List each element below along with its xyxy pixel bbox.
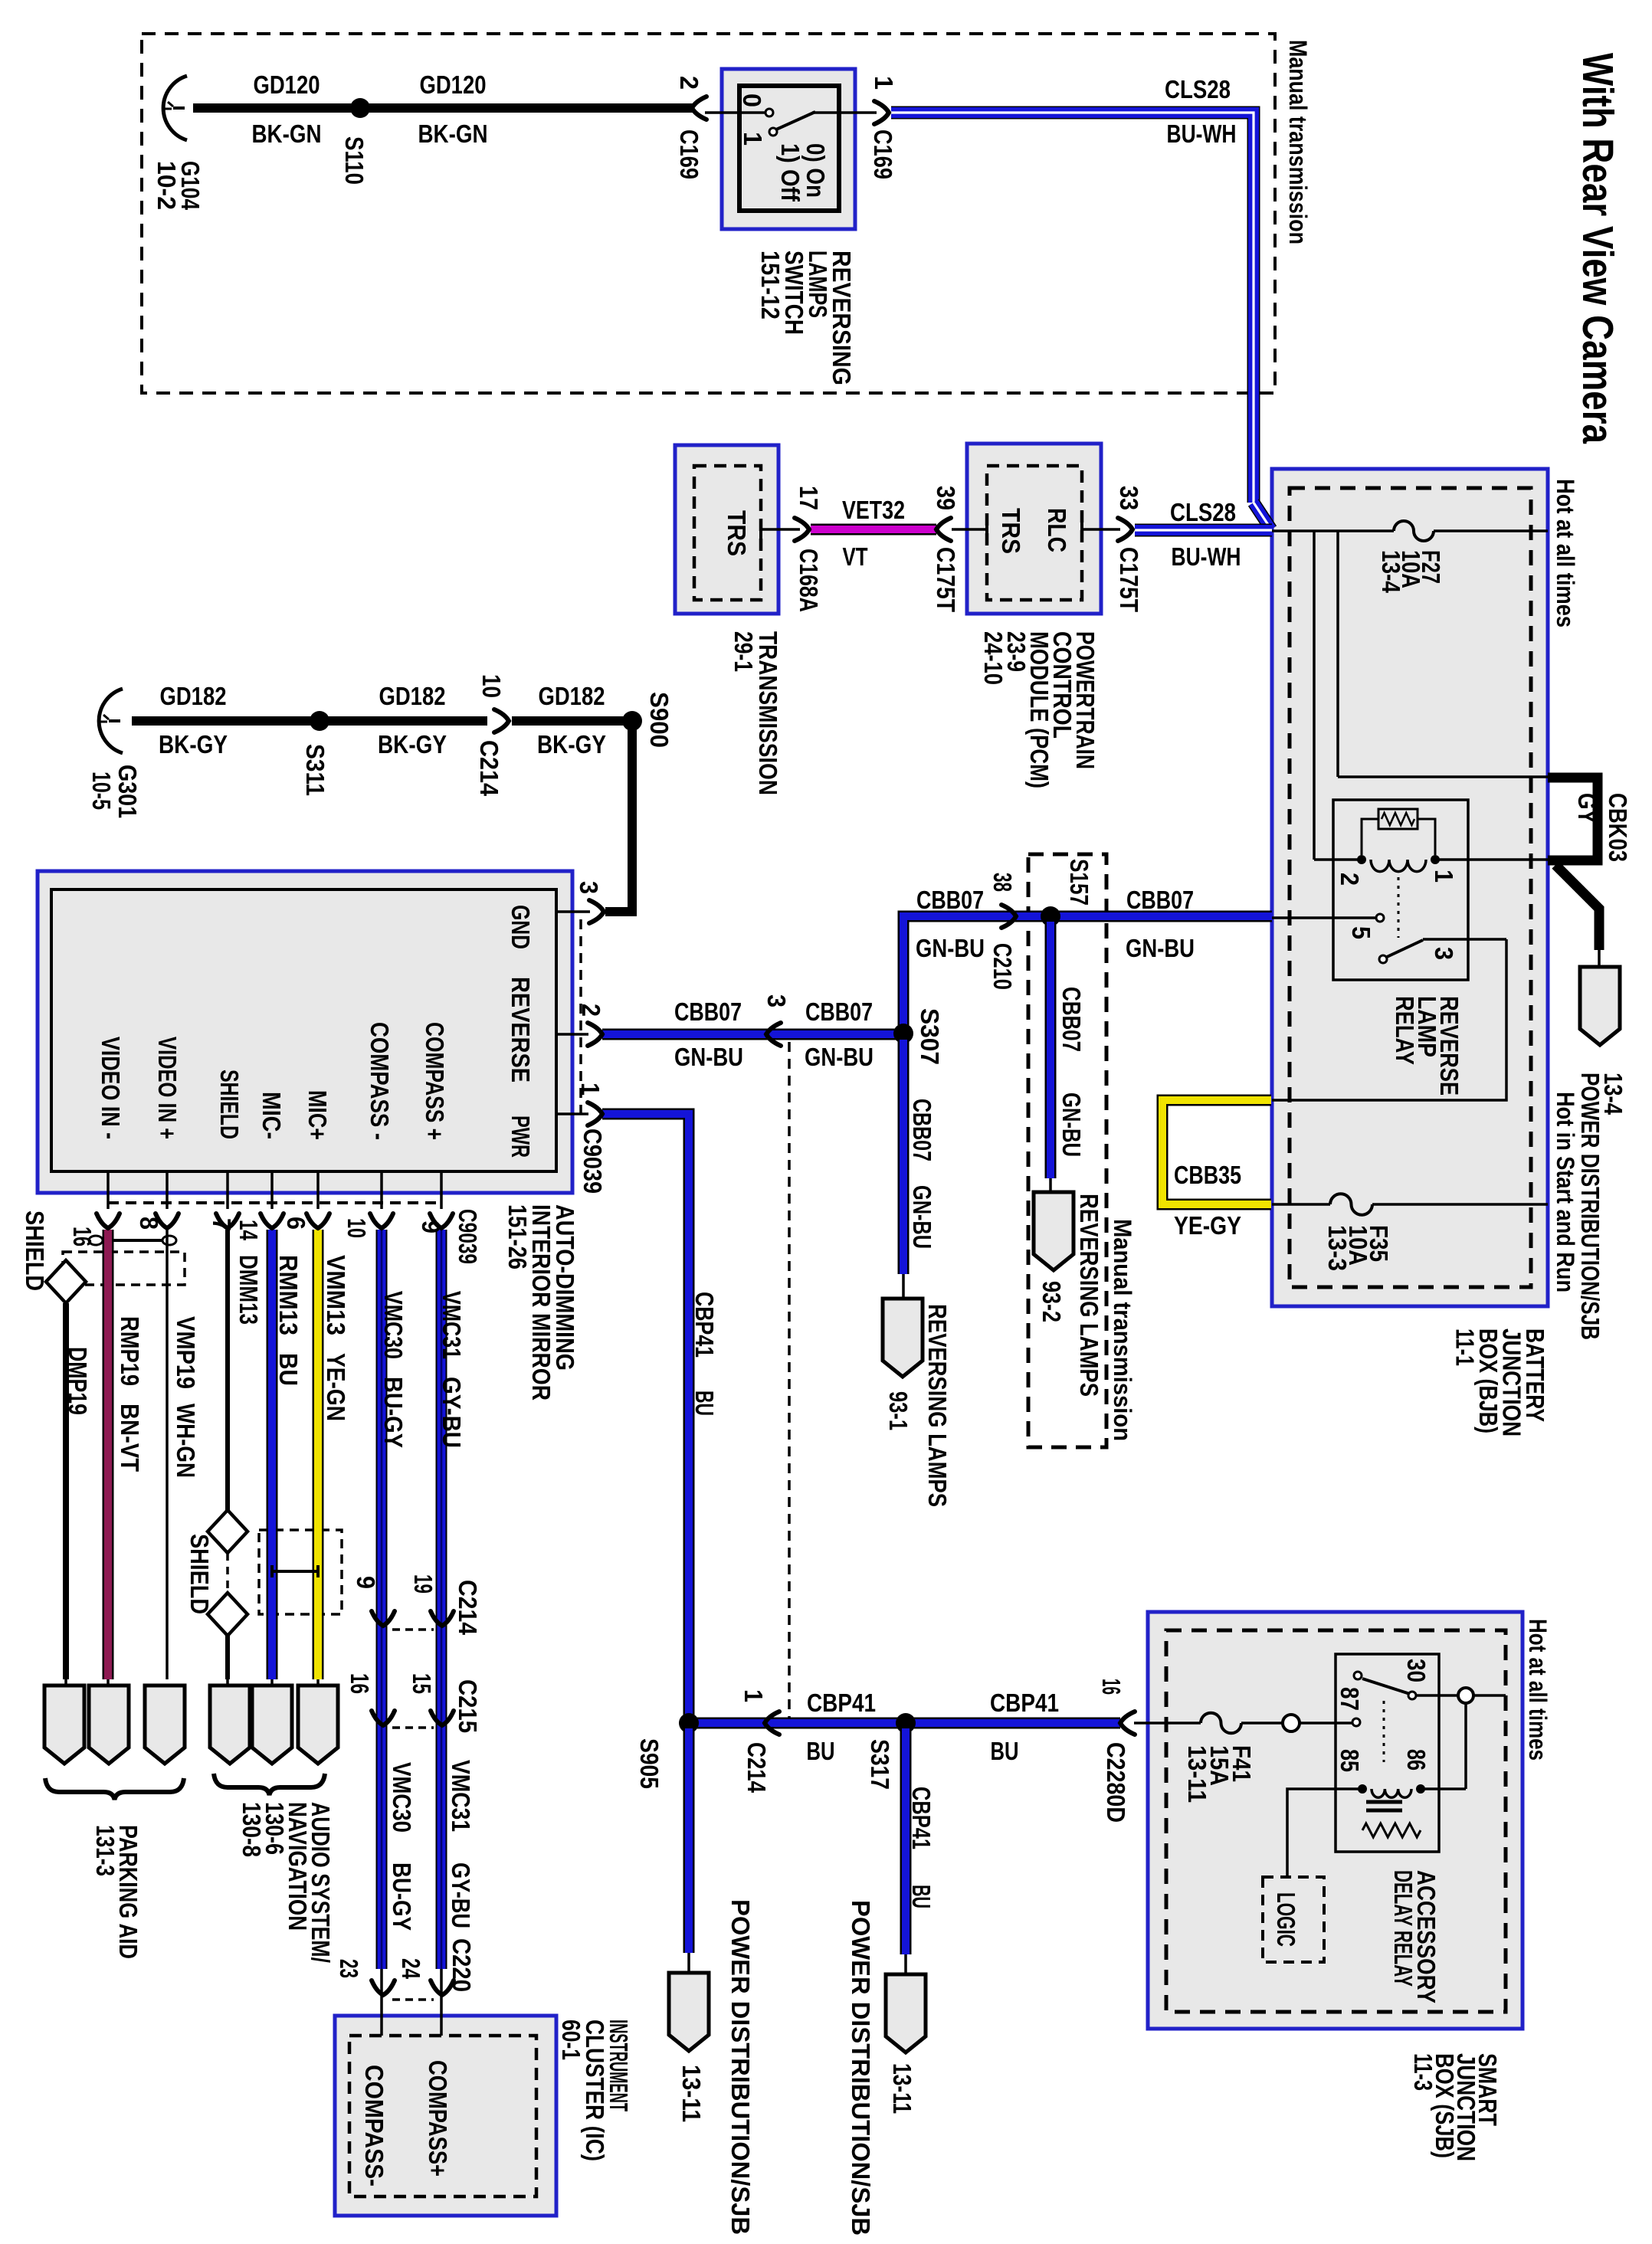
- svg-text:Hot at all times: Hot at all times: [1552, 479, 1579, 627]
- svg-text:C214: C214: [742, 1742, 771, 1794]
- svg-text:GY-BU: GY-BU: [438, 1377, 466, 1448]
- svg-text:S900: S900: [645, 692, 674, 748]
- svg-text:CBB07: CBB07: [1057, 987, 1086, 1052]
- svg-text:BK-GN: BK-GN: [418, 120, 488, 148]
- svg-text:11-3: 11-3: [1409, 2053, 1437, 2091]
- svg-text:CBP41: CBP41: [690, 1292, 719, 1358]
- svg-text:DMM13: DMM13: [234, 1255, 263, 1325]
- svg-text:6: 6: [282, 1217, 310, 1230]
- svg-text:MIC+: MIC+: [303, 1090, 332, 1140]
- svg-text:With Rear View Camera: With Rear View Camera: [1573, 53, 1622, 444]
- svg-text:13-3: 13-3: [1323, 1225, 1352, 1271]
- svg-text:C168A: C168A: [795, 549, 823, 612]
- svg-text:33: 33: [1115, 486, 1143, 510]
- svg-text:GND: GND: [506, 905, 535, 949]
- svg-text:13-11: 13-11: [1183, 1745, 1211, 1803]
- svg-text:BU-WH: BU-WH: [1167, 120, 1237, 148]
- svg-text:60-1: 60-1: [557, 2020, 585, 2060]
- svg-text:RLC: RLC: [1043, 508, 1071, 552]
- svg-text:10-2: 10-2: [152, 161, 181, 210]
- svg-text:GN-BU: GN-BU: [916, 934, 985, 962]
- svg-text:C175T: C175T: [932, 547, 960, 612]
- svg-text:39: 39: [932, 486, 960, 510]
- svg-text:GN-BU: GN-BU: [1126, 934, 1195, 962]
- svg-text:1: 1: [739, 1689, 768, 1702]
- svg-text:GD120: GD120: [254, 70, 320, 99]
- svg-text:130-8: 130-8: [238, 1802, 266, 1857]
- svg-text:Manual transmission: Manual transmission: [1284, 40, 1312, 244]
- svg-text:COMPASS+: COMPASS+: [424, 2060, 452, 2177]
- svg-text:0: 0: [738, 93, 766, 107]
- svg-text:POWER DISTRIBUTION/SJB: POWER DISTRIBUTION/SJB: [847, 1900, 875, 2236]
- svg-text:SHIELD: SHIELD: [185, 1534, 214, 1614]
- svg-text:131-3: 131-3: [91, 1825, 120, 1876]
- svg-text:CBB07: CBB07: [916, 886, 984, 914]
- svg-text:C214: C214: [454, 1580, 482, 1636]
- svg-text:POWER DISTRIBUTION/SJB: POWER DISTRIBUTION/SJB: [1576, 1073, 1604, 1340]
- svg-text:BK-GY: BK-GY: [159, 730, 228, 758]
- svg-text:TRS: TRS: [723, 510, 751, 556]
- svg-text:8: 8: [135, 1217, 163, 1230]
- svg-text:1: 1: [739, 132, 767, 146]
- svg-text:9: 9: [417, 1220, 445, 1233]
- svg-text:151-12: 151-12: [756, 251, 785, 319]
- svg-text:10: 10: [343, 1218, 371, 1238]
- svg-text:COMPASS -: COMPASS -: [365, 1022, 394, 1140]
- svg-text:29-1: 29-1: [729, 631, 758, 672]
- svg-text:BU-GY: BU-GY: [379, 1377, 408, 1448]
- svg-text:G301: G301: [113, 765, 142, 818]
- svg-text:S905: S905: [635, 1738, 664, 1789]
- svg-text:BU: BU: [807, 1737, 835, 1765]
- svg-text:10: 10: [477, 674, 506, 698]
- svg-text:REVERSE: REVERSE: [506, 977, 535, 1083]
- svg-text:CBB07: CBB07: [674, 998, 742, 1026]
- svg-text:VMC30: VMC30: [388, 1762, 416, 1833]
- svg-text:13-11: 13-11: [888, 2063, 916, 2114]
- svg-text:CBB07: CBB07: [805, 998, 873, 1026]
- svg-text:BK-GN: BK-GN: [252, 120, 322, 148]
- svg-text:13-11: 13-11: [677, 2065, 706, 2122]
- svg-text:REVERSING LAMPS: REVERSING LAMPS: [1075, 1194, 1103, 1397]
- svg-text:24: 24: [397, 1958, 425, 1979]
- svg-text:BU-WH: BU-WH: [1172, 542, 1241, 571]
- svg-text:87: 87: [1336, 1687, 1364, 1711]
- svg-text:DMP19: DMP19: [64, 1347, 92, 1415]
- svg-text:10-5: 10-5: [87, 771, 116, 810]
- svg-text:7: 7: [208, 1218, 236, 1231]
- svg-text:2: 2: [675, 76, 703, 90]
- svg-text:1: 1: [576, 1083, 605, 1096]
- svg-text:30: 30: [1402, 1659, 1431, 1682]
- svg-text:TRS: TRS: [997, 508, 1025, 554]
- svg-text:14: 14: [234, 1220, 263, 1240]
- svg-text:38: 38: [988, 873, 1017, 892]
- svg-text:24-10: 24-10: [979, 631, 1008, 685]
- svg-text:DELAY RELAY: DELAY RELAY: [1389, 1870, 1418, 1987]
- svg-text:SHIELD: SHIELD: [215, 1070, 244, 1139]
- svg-text:VET32: VET32: [842, 496, 905, 524]
- svg-text:GD182: GD182: [160, 682, 227, 710]
- svg-text:13-4: 13-4: [1377, 550, 1405, 594]
- svg-text:GN-BU: GN-BU: [805, 1043, 874, 1071]
- svg-text:Manual transmission: Manual transmission: [1109, 1219, 1136, 1441]
- svg-text:VMC31: VMC31: [447, 1760, 475, 1832]
- svg-text:16: 16: [346, 1673, 374, 1694]
- svg-text:2: 2: [577, 1004, 605, 1017]
- svg-text:S311: S311: [301, 744, 329, 796]
- svg-text:19: 19: [409, 1574, 438, 1594]
- svg-text:C2280D: C2280D: [1102, 1742, 1130, 1823]
- svg-text:SHIELD: SHIELD: [21, 1210, 49, 1291]
- svg-text:RMM13: RMM13: [274, 1255, 303, 1335]
- svg-text:C214: C214: [475, 740, 503, 797]
- svg-text:BU-GY: BU-GY: [388, 1862, 416, 1931]
- svg-text:CBB07: CBB07: [908, 1099, 936, 1161]
- svg-text:VMC31: VMC31: [438, 1291, 466, 1359]
- svg-text:BU: BU: [991, 1737, 1019, 1765]
- svg-text:MIC-: MIC-: [257, 1092, 286, 1139]
- svg-text:C215: C215: [454, 1679, 482, 1733]
- svg-text:BK-GY: BK-GY: [378, 730, 447, 758]
- svg-text:CBK03: CBK03: [1604, 793, 1632, 862]
- svg-text:BN-VT: BN-VT: [116, 1404, 144, 1472]
- svg-text:93-2: 93-2: [1037, 1281, 1066, 1322]
- svg-text:C9039: C9039: [579, 1129, 607, 1194]
- svg-text:11-1: 11-1: [1451, 1328, 1480, 1366]
- svg-text:1: 1: [1430, 870, 1458, 883]
- svg-text:BK-GY: BK-GY: [537, 730, 606, 758]
- svg-text:151-26: 151-26: [503, 1204, 532, 1269]
- svg-text:23: 23: [335, 1959, 363, 1978]
- svg-text:Hot in Start and Run: Hot in Start and Run: [1552, 1092, 1579, 1292]
- svg-text:CBP41: CBP41: [807, 1689, 876, 1717]
- svg-text:RELAY: RELAY: [1391, 996, 1419, 1065]
- svg-text:1: 1: [870, 76, 898, 90]
- svg-text:85: 85: [1336, 1749, 1364, 1772]
- svg-text:S307: S307: [916, 1008, 944, 1065]
- svg-text:GN-BU: GN-BU: [674, 1043, 743, 1071]
- svg-text:POWER DISTRIBUTION/SJB: POWER DISTRIBUTION/SJB: [726, 1899, 755, 2235]
- svg-text:C169: C169: [869, 129, 897, 179]
- svg-text:C175T: C175T: [1115, 547, 1143, 612]
- svg-text:S157: S157: [1065, 859, 1093, 906]
- svg-text:VT: VT: [843, 542, 868, 571]
- svg-text:LOGIC: LOGIC: [1272, 1892, 1300, 1947]
- svg-text:2: 2: [1336, 873, 1364, 886]
- svg-text:COMPASS-: COMPASS-: [360, 2065, 388, 2187]
- svg-text:1) Off: 1) Off: [776, 143, 805, 202]
- svg-text:GD182: GD182: [379, 682, 446, 710]
- svg-text:BU: BU: [907, 1885, 936, 1908]
- svg-text:RMP19: RMP19: [116, 1316, 144, 1386]
- svg-text:0) On: 0) On: [801, 143, 830, 198]
- svg-text:CBB35: CBB35: [1174, 1161, 1241, 1189]
- svg-text:VMM13: VMM13: [322, 1255, 350, 1335]
- svg-text:16: 16: [68, 1227, 97, 1246]
- svg-text:CBB07: CBB07: [1126, 886, 1194, 914]
- svg-text:VMP19: VMP19: [172, 1316, 200, 1389]
- svg-text:GY: GY: [1573, 793, 1601, 824]
- svg-text:3: 3: [575, 881, 603, 894]
- svg-text:CLS28: CLS28: [1165, 75, 1231, 103]
- svg-text:3: 3: [762, 994, 791, 1007]
- svg-text:VIDEO IN +: VIDEO IN +: [153, 1037, 182, 1139]
- svg-text:16: 16: [1097, 1679, 1126, 1695]
- svg-text:Hot at all times: Hot at all times: [1524, 1619, 1552, 1761]
- svg-text:S110: S110: [340, 136, 369, 185]
- svg-text:C220: C220: [447, 1938, 476, 1992]
- svg-text:93-1: 93-1: [884, 1391, 913, 1430]
- svg-text:GD120: GD120: [420, 70, 487, 99]
- svg-text:CBP41: CBP41: [907, 1787, 936, 1849]
- svg-text:VMC30: VMC30: [379, 1291, 408, 1359]
- svg-text:GN-BU: GN-BU: [908, 1185, 936, 1249]
- svg-text:VIDEO IN -: VIDEO IN -: [97, 1037, 125, 1139]
- svg-text:S317: S317: [866, 1739, 894, 1790]
- svg-text:GN-BU: GN-BU: [1057, 1093, 1086, 1157]
- svg-text:GD182: GD182: [539, 682, 605, 710]
- svg-text:9: 9: [352, 1576, 380, 1589]
- svg-text:3: 3: [1430, 947, 1458, 960]
- svg-text:BU: BU: [274, 1353, 303, 1386]
- svg-text:COMPASS +: COMPASS +: [421, 1022, 449, 1140]
- svg-text:C169: C169: [675, 129, 703, 179]
- svg-text:YE-GY: YE-GY: [1174, 1211, 1241, 1240]
- svg-text:15: 15: [408, 1673, 436, 1694]
- svg-text:PWR: PWR: [506, 1115, 535, 1158]
- svg-text:WH-GN: WH-GN: [172, 1404, 200, 1478]
- svg-text:REVERSING LAMPS: REVERSING LAMPS: [923, 1304, 952, 1507]
- svg-text:86: 86: [1402, 1749, 1431, 1771]
- svg-text:CLS28: CLS28: [1170, 498, 1236, 526]
- svg-text:CBP41: CBP41: [990, 1689, 1059, 1717]
- svg-text:BU: BU: [690, 1391, 719, 1416]
- svg-text:YE-GN: YE-GN: [322, 1353, 350, 1421]
- svg-text:GY-BU: GY-BU: [447, 1862, 475, 1928]
- svg-text:C210: C210: [988, 943, 1017, 990]
- svg-text:5: 5: [1347, 926, 1375, 939]
- svg-text:C9039: C9039: [454, 1209, 482, 1264]
- svg-text:17: 17: [795, 486, 823, 510]
